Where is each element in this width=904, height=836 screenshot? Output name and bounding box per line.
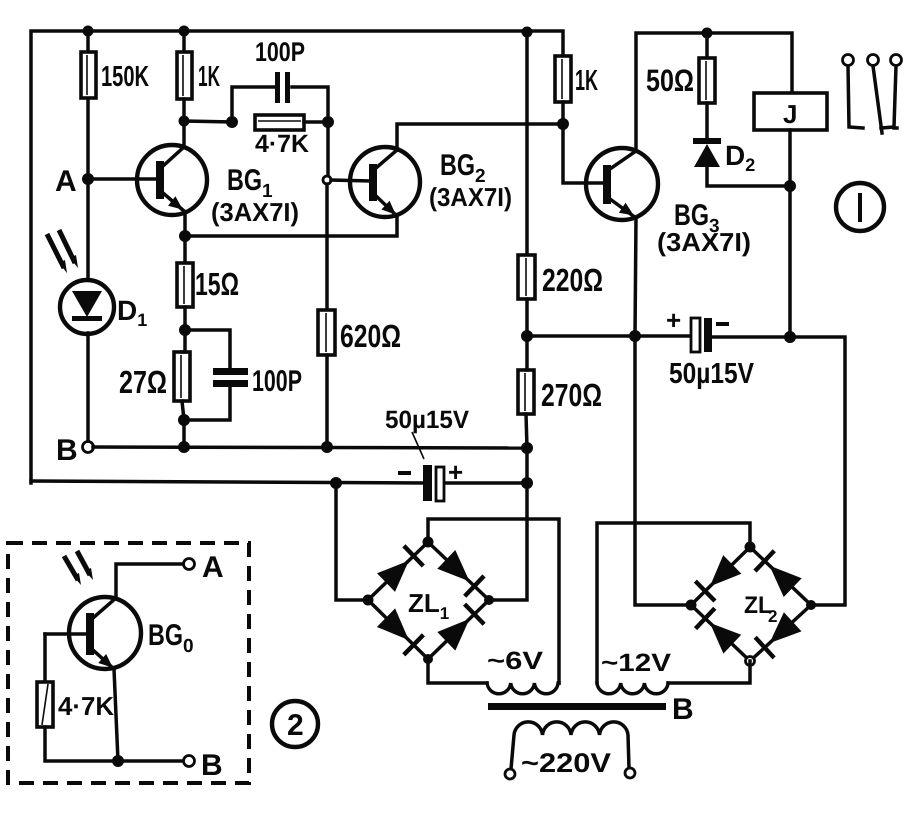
relay contact left (843, 55, 864, 129)
wire left rail x88 upper (86, 31, 90, 280)
winding ~220V (511, 722, 629, 769)
wire cap node to ZL2 right (790, 337, 845, 605)
resistor 270ohm (518, 370, 534, 414)
wire node to BG3 emitter rail (527, 334, 635, 338)
node A (82, 173, 94, 185)
svg-text:~220V: ~220V (521, 748, 611, 778)
relay contact middle arm (868, 55, 883, 134)
diode ZL1 B-R (437, 619, 469, 651)
node border x527 (521, 477, 533, 489)
wire 27ohm leads (182, 330, 185, 352)
svg-text:100P: 100P (255, 37, 305, 67)
transformer core (488, 703, 666, 710)
wire 100P bottom leg (185, 387, 230, 420)
svg-text:~6V: ~6V (487, 647, 543, 675)
transistor BG2 (331, 147, 512, 219)
wire 1K right leads (561, 102, 565, 124)
resistor 620ohm (318, 310, 335, 355)
wire 100P branch left leg (232, 87, 276, 122)
bridge ZL2 (686, 542, 817, 666)
svg-text:B: B (672, 693, 694, 726)
node 100P bottom (178, 414, 190, 426)
wire J to cap node (788, 130, 792, 337)
node 220/270 (521, 330, 533, 342)
node 4.7K left (226, 116, 238, 128)
resistor 27ohm (174, 352, 190, 401)
svg-text:1K: 1K (575, 65, 598, 97)
wire node to 4.7K left node (184, 121, 232, 122)
wire ZL1 top corner loop to 6V winding right (428, 519, 559, 683)
light arrows D1 (47, 230, 78, 273)
wire 1K to collector node (182, 99, 186, 147)
node emitter cap left (629, 330, 641, 342)
resistor 1K right (555, 56, 571, 102)
node 4.7K right (322, 116, 334, 128)
wire 620 to B rail (325, 355, 329, 447)
diode ZL1 L-B (377, 608, 409, 640)
diode ZL2 R-T (770, 566, 802, 597)
wire B rail (93, 447, 527, 448)
svg-text:50Ω: 50Ω (646, 63, 694, 98)
wire 100P branch right leg (292, 87, 328, 122)
phototransistor BG0 (45, 597, 194, 672)
capacitor 100P lower (213, 368, 248, 375)
wire D2 to J bottom rail (707, 166, 790, 186)
capacitor 50u15V upper (635, 305, 790, 390)
wire BG0 base to 4.7K (43, 634, 47, 682)
svg-text:220Ω: 220Ω (542, 262, 603, 298)
wire ZL1 diamond (368, 542, 489, 659)
wire 270 leads (525, 336, 529, 370)
wire border node down to ZL1 left (336, 483, 368, 600)
wire 220 to node (525, 299, 529, 336)
node 100P branch top (179, 324, 191, 336)
svg-text:2: 2 (287, 709, 304, 742)
wire BG0 emitter down (114, 669, 118, 761)
svg-text:2: 2 (768, 607, 777, 626)
wire BG2 collector to 1K right (397, 124, 563, 150)
svg-text:50µ15V: 50µ15V (669, 358, 755, 390)
node top rail x184 (179, 26, 190, 37)
svg-text:(3AX7I): (3AX7I) (429, 182, 512, 212)
wire 4.7K right lead (304, 120, 328, 124)
resistor 50ohm (705, 33, 709, 58)
svg-text:150K: 150K (101, 61, 149, 93)
node top rail x88 (83, 26, 94, 37)
svg-text:270Ω: 270Ω (541, 377, 602, 413)
node B rail x184 (178, 441, 190, 453)
resistor 1K left (177, 52, 192, 99)
node emitter B wire (112, 755, 124, 767)
circled 2 (272, 701, 318, 747)
junction small circle BG2 base (323, 176, 331, 184)
wire x527 rail top down to 220 (525, 32, 529, 255)
wire top border (31, 31, 563, 483)
wire x328 down to BG2 base tap (326, 122, 330, 176)
node J bottom (784, 180, 796, 192)
terminal A open circle (184, 559, 195, 570)
wire 15ohm to node (183, 307, 187, 330)
node top rail x527 (522, 27, 533, 38)
node border x336 (330, 477, 342, 489)
winding ~12V (597, 683, 668, 694)
bridge ZL1 (363, 537, 495, 665)
circled 1 (836, 183, 884, 231)
svg-text:+: + (666, 305, 681, 335)
wire BG1 emitter rail (185, 212, 397, 236)
terminal 220V right (625, 768, 635, 778)
svg-text:4·7K: 4·7K (58, 691, 114, 721)
node 620 B rail (321, 441, 333, 453)
terminal B open circle (184, 756, 195, 767)
svg-text:27Ω: 27Ω (119, 364, 167, 400)
svg-text:620Ω: 620Ω (340, 318, 401, 354)
terminal B open circle (83, 442, 94, 453)
wire 4.7K to B terminal (45, 727, 184, 761)
light arrows BG0 (64, 551, 93, 585)
svg-text:(3AX7I): (3AX7I) (211, 197, 299, 227)
capacitor 50u15V lower (385, 406, 469, 501)
svg-text:4·7K: 4·7K (255, 130, 309, 158)
svg-text:B: B (56, 434, 78, 467)
svg-text:(3AX7I): (3AX7I) (657, 227, 751, 257)
node BG1 collector junction (179, 116, 190, 127)
resistor 4.7K box (37, 682, 53, 727)
node ZL1 corners (363, 595, 374, 606)
wire base BG1 (88, 177, 158, 181)
wire emitter chain down to 15ohm (183, 236, 187, 263)
wire 50ohm to D2 (705, 103, 709, 140)
wire BG3 emitter down (635, 218, 636, 336)
wire 100P lower branch (185, 330, 230, 369)
wire ZL2 top corner loop to 12V winding left (597, 523, 750, 683)
svg-text:A: A (202, 551, 224, 584)
winding ~6V (487, 683, 559, 694)
node B rail x527 (521, 442, 533, 454)
wire bottom border right of capacitor (441, 481, 527, 485)
svg-text:1K: 1K (198, 61, 220, 93)
transistor BG3 (586, 148, 751, 257)
capacitor 100P top (275, 72, 280, 103)
svg-text:J: J (783, 99, 797, 129)
photodiode D1 (60, 280, 147, 334)
wire emitter rail down to ZL2 left (635, 336, 691, 605)
wire D1 to B terminal (86, 333, 90, 441)
node emitter x184 (179, 230, 191, 242)
diode ZL1 L-T (377, 561, 409, 592)
node ZL2 corners (686, 600, 697, 611)
resistor 4.7K horizontal (255, 115, 304, 130)
relay coil J (754, 93, 827, 130)
svg-text:50µ15V: 50µ15V (385, 406, 469, 434)
svg-text:B: B (201, 749, 223, 782)
diode ZL1 T-R (437, 550, 469, 581)
node cap right (784, 331, 796, 343)
wire ZL2 diamond (691, 547, 811, 661)
diode ZL2 B-L (710, 623, 741, 654)
wire BG0 collector to A (116, 564, 184, 598)
svg-text:~12V: ~12V (601, 649, 671, 677)
resistor 15ohm (177, 263, 193, 307)
diode D2 (693, 138, 721, 144)
dashed box detail 2 (8, 543, 249, 783)
node below 1K right (557, 118, 569, 130)
wire ZL2 bottom corner to 12V winding right (668, 661, 750, 683)
node 50ohm top (702, 28, 713, 39)
terminal 220V left (505, 769, 515, 779)
wire 1K rail x184 (182, 31, 186, 52)
wire BG2 base tap to 620 (325, 184, 329, 310)
diode ZL2 T-L (710, 555, 742, 586)
svg-text:A: A (55, 165, 77, 198)
wire BG3 collector top (636, 33, 792, 151)
wire to BG3 base (563, 124, 605, 183)
svg-text:15Ω: 15Ω (195, 266, 239, 302)
svg-text:+: + (448, 457, 463, 487)
relay contact right (881, 55, 902, 129)
transistor BG1 (137, 145, 299, 227)
diode ZL2 R-B (770, 612, 802, 643)
resistor R 150K (81, 52, 96, 98)
wire ZL1 bottom corner to 6V winding left (428, 659, 487, 683)
svg-text:100P: 100P (252, 365, 302, 398)
resistor 220ohm (518, 255, 535, 299)
wire bottom border left of capacitor (31, 481, 424, 483)
